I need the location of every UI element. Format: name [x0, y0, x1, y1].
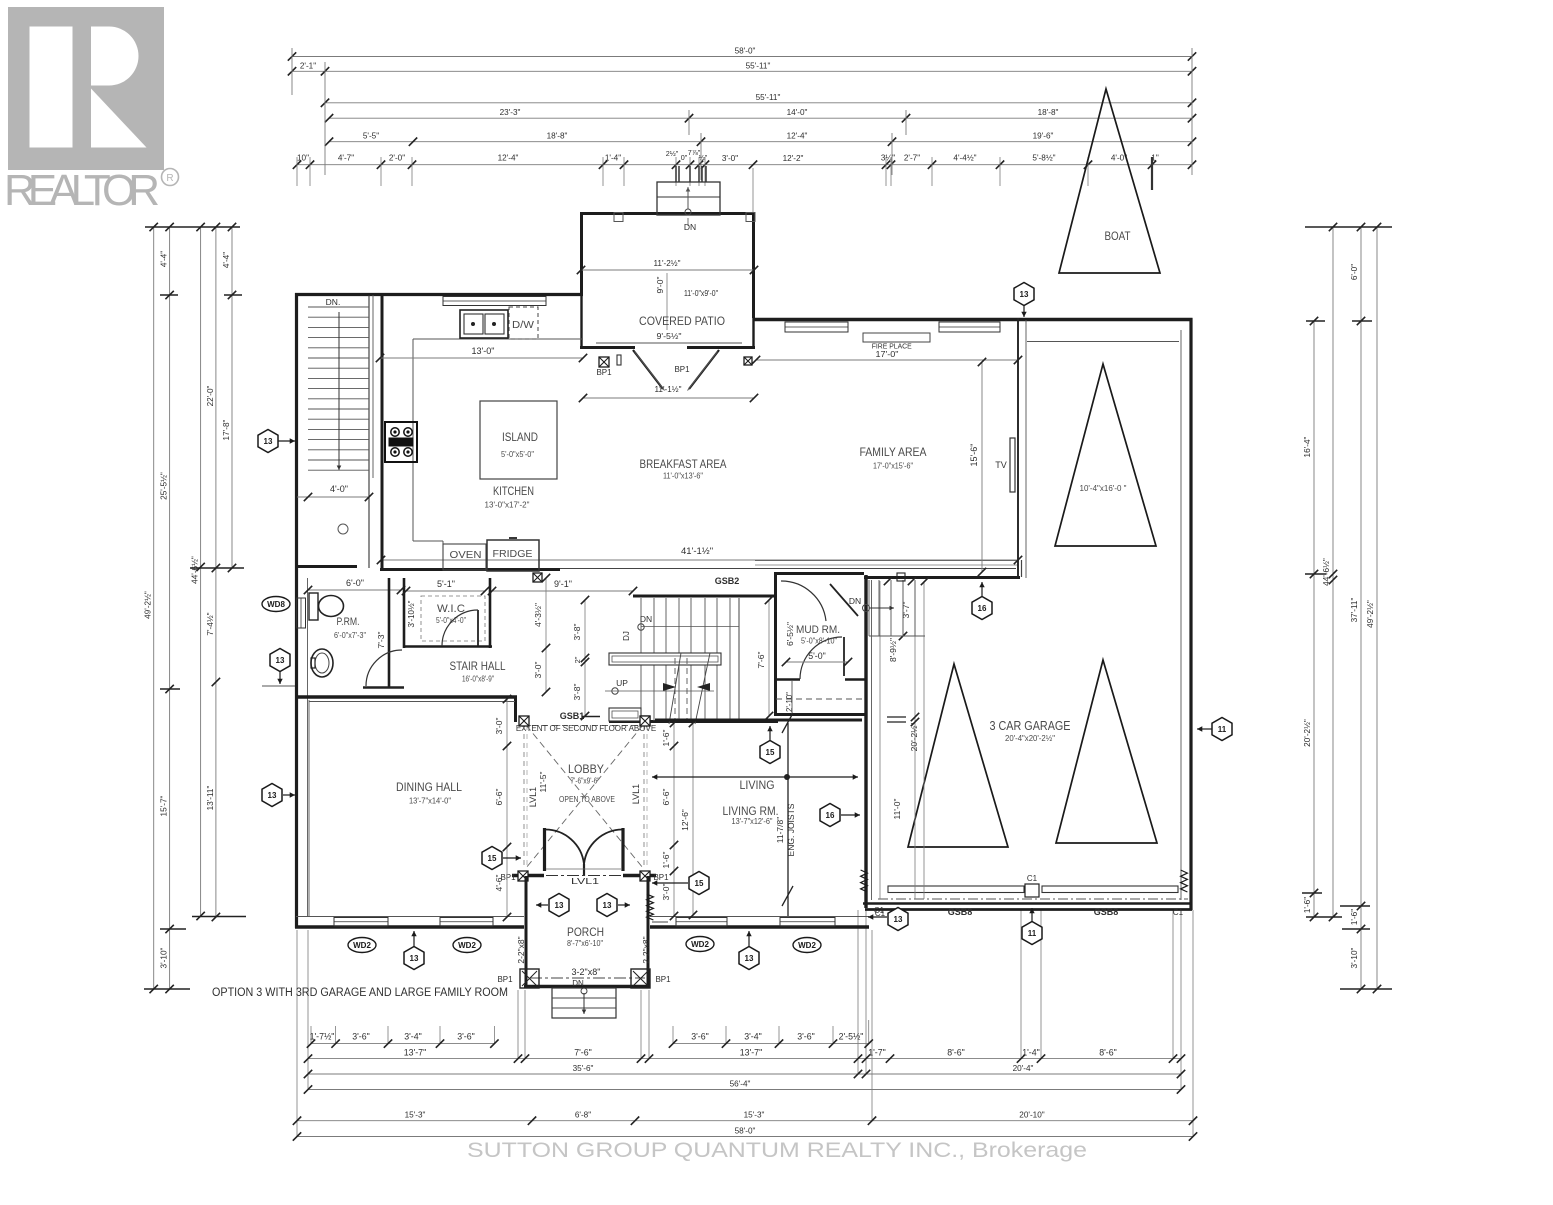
svg-text:2'-10": 2'-10" [785, 692, 794, 712]
svg-text:STAIR HALL: STAIR HALL [450, 659, 506, 673]
svg-text:ENG. JOISTS: ENG. JOISTS [786, 803, 796, 856]
dishwasher dashed [509, 307, 538, 339]
garage tree left [908, 664, 1008, 847]
living interior dims [673, 723, 675, 916]
svg-text:25'-5½": 25'-5½" [160, 472, 169, 500]
svg-text:DN: DN [684, 222, 696, 232]
svg-text:UP: UP [616, 678, 628, 688]
svg-text:12'-6": 12'-6" [680, 809, 690, 831]
svg-text:8'-6": 8'-6" [1099, 1047, 1117, 1057]
dim top row6 [293, 154, 1196, 169]
mud room walls [774, 572, 777, 716]
svg-text:5'-5": 5'-5" [363, 132, 379, 141]
svg-text:44'-6½": 44'-6½" [191, 556, 200, 584]
svg-text:5'-0"x4'-0": 5'-0"x4'-0" [436, 616, 466, 625]
dim bot row1 left [307, 1032, 499, 1048]
svg-text:3-2"x8": 3-2"x8" [572, 967, 601, 977]
oven fridge [443, 544, 486, 570]
mud closet [776, 698, 866, 700]
dim right 6-0/37-11/1-6/3-10 [1350, 223, 1365, 993]
svg-text:10": 10" [297, 154, 309, 163]
svg-text:5'-8½": 5'-8½" [1032, 154, 1055, 163]
left dim end bars [144, 227, 246, 989]
WIC walls [403, 578, 406, 648]
svg-text:GSB8: GSB8 [948, 907, 973, 917]
svg-text:16'-4": 16'-4" [1303, 436, 1312, 457]
mud dim 5-0 [786, 661, 848, 663]
svg-text:15: 15 [488, 854, 497, 863]
svg-text:1'-7½": 1'-7½" [310, 1032, 335, 1042]
stair hall interior dims [584, 600, 586, 716]
window left wall [297, 598, 306, 628]
svg-text:8'-9½": 8'-9½" [888, 638, 898, 662]
dim right 16-4/20-2/1-6 [1303, 317, 1318, 921]
island [480, 401, 557, 479]
svg-text:13'-7"x14'-0": 13'-7"x14'-0" [409, 796, 451, 806]
garage bottom wall [863, 902, 1192, 905]
extent dashed line [532, 725, 640, 727]
svg-text:13: 13 [894, 915, 903, 924]
svg-text:3'-8": 3'-8" [572, 624, 582, 641]
svg-text:2½": 2½" [666, 149, 679, 158]
svg-text:6'-0"x7'-3": 6'-0"x7'-3" [334, 631, 366, 640]
svg-text:15'-7": 15'-7" [160, 795, 169, 816]
svg-text:3'-10½": 3'-10½" [407, 600, 416, 627]
svg-text:1'-4": 1'-4" [605, 154, 621, 163]
svg-text:C1: C1 [1173, 908, 1184, 917]
svg-text:2-2"x8": 2-2"x8" [641, 936, 651, 963]
svg-text:3'-6": 3'-6" [797, 1032, 815, 1042]
svg-text:6'-0": 6'-0" [346, 578, 364, 588]
svg-text:EXTENT OF SECOND FLOOR ABOVE: EXTENT OF SECOND FLOOR ABOVE [516, 724, 656, 733]
svg-text:13'-0": 13'-0" [472, 346, 495, 356]
main stair bottom wall [609, 720, 778, 723]
svg-text:2'-7": 2'-7" [904, 154, 920, 163]
svg-text:13'-7": 13'-7" [404, 1047, 426, 1057]
svg-text:14'-0": 14'-0" [787, 108, 808, 117]
kitchen bottom wall [296, 565, 357, 568]
dim 4-3 / 3-0 right of WIC [545, 578, 547, 692]
svg-text:6'-0": 6'-0" [1350, 264, 1359, 280]
svg-text:9'-0": 9'-0" [655, 277, 665, 294]
svg-text:DINING HALL: DINING HALL [396, 780, 462, 794]
svg-text:15'-6": 15'-6" [969, 444, 979, 467]
svg-text:12'-2": 12'-2" [783, 154, 804, 163]
right dim end bars [1302, 227, 1392, 989]
svg-text:P.RM.: P.RM. [337, 616, 360, 628]
svg-text:MUD RM.: MUD RM. [796, 624, 840, 636]
garage right wall [1189, 318, 1192, 910]
porch hexagons 13 [536, 904, 548, 906]
boat triangle [1059, 89, 1160, 273]
svg-text:BP1: BP1 [653, 873, 669, 882]
svg-text:55'-11": 55'-11" [746, 61, 771, 70]
hexagon 13 garage bottom left [868, 916, 887, 918]
svg-text:37'-11": 37'-11" [1350, 598, 1359, 623]
svg-text:DN.: DN. [326, 297, 341, 307]
cooktop [385, 422, 417, 462]
dim bot row5 [293, 1111, 1197, 1125]
hexagon 15 living top [769, 726, 771, 740]
svg-text:WD8: WD8 [267, 600, 285, 609]
svg-text:10'-4"x16'-0 ": 10'-4"x16'-0 " [1080, 483, 1127, 493]
svg-text:1'-6": 1'-6" [1303, 897, 1312, 913]
svg-text:LIVING: LIVING [740, 778, 775, 792]
svg-text:2'-1": 2'-1" [300, 61, 316, 70]
svg-text:4'-6": 4'-6" [494, 875, 504, 892]
living span arrow [652, 776, 787, 778]
eng joists line [787, 723, 789, 916]
porch dashdot mid [530, 977, 645, 979]
dim left 44ft6 [191, 223, 205, 920]
svg-text:DJ: DJ [622, 631, 631, 641]
dim bot row6 [293, 1127, 1197, 1141]
hexagon 13 left dining [283, 794, 295, 796]
patio bottom wall [580, 346, 635, 349]
svg-text:ISLAND: ISLAND [502, 432, 538, 444]
svg-text:1'-6": 1'-6" [1350, 909, 1359, 925]
front double doors [543, 828, 546, 871]
svg-text:16'-0"x8'-9": 16'-0"x8'-9" [462, 674, 494, 684]
svg-text:18'-8": 18'-8" [1038, 108, 1059, 117]
svg-text:3'-6": 3'-6" [457, 1032, 475, 1042]
garage upper tree [1055, 364, 1156, 546]
svg-text:KITCHEN: KITCHEN [493, 484, 534, 498]
patio lower dim 11-1 [583, 397, 754, 399]
svg-text:1'-7": 1'-7" [868, 1047, 886, 1057]
svg-text:19'-6": 19'-6" [1033, 132, 1054, 141]
svg-text:17'-0": 17'-0" [876, 350, 899, 359]
svg-text:3'-0": 3'-0" [533, 662, 543, 679]
watermark sutton [465, 1138, 1090, 1161]
svg-text:3¼": 3¼" [881, 154, 895, 163]
svg-text:BP1: BP1 [655, 975, 671, 984]
svg-text:3'-4": 3'-4" [744, 1032, 762, 1042]
family area top wall [753, 318, 1033, 321]
family right wall [1017, 318, 1019, 577]
svg-text:SUTTON GROUP QUANTUM REALTY IN: SUTTON GROUP QUANTUM REALTY INC., Broker… [467, 1139, 1087, 1162]
svg-text:13: 13 [264, 437, 273, 446]
dim bot row4 [304, 1080, 1185, 1094]
svg-text:20'-10": 20'-10" [1019, 1111, 1045, 1120]
hexagon 16 living [841, 814, 860, 816]
svg-text:4'-0": 4'-0" [330, 484, 348, 494]
dim bot row1 right [669, 1032, 873, 1048]
dim left 49ft [144, 223, 158, 993]
bottom wall right of porch [650, 925, 869, 928]
outer wall: left [295, 293, 298, 928]
stair lower rail [609, 708, 641, 721]
svg-text:3 CAR GARAGE: 3 CAR GARAGE [990, 719, 1071, 733]
dim 41-1 [381, 559, 1018, 561]
dining interior dims left [506, 699, 508, 917]
svg-text:6'-5½": 6'-5½" [785, 622, 795, 646]
svg-text:20'-4": 20'-4" [1013, 1064, 1034, 1073]
BP1 markers lobby [518, 871, 528, 881]
svg-text:56'-4": 56'-4" [730, 1080, 751, 1089]
svg-text:7'-6"x9'-6": 7'-6"x9'-6" [571, 777, 600, 786]
svg-text:41'-1½": 41'-1½" [681, 546, 713, 557]
svg-text:BP1: BP1 [497, 975, 513, 984]
WD8 oval [262, 597, 290, 612]
svg-text:12'-4": 12'-4" [498, 154, 519, 163]
svg-text:5'-1": 5'-1" [437, 579, 455, 589]
svg-text:58'-0": 58'-0" [735, 47, 756, 56]
svg-text:DN: DN [849, 596, 861, 606]
svg-text:OVEN: OVEN [450, 550, 482, 561]
hexagon 15 living left [652, 882, 688, 884]
patio dim 11-2 [581, 269, 754, 271]
svg-text:GSB2: GSB2 [715, 576, 740, 586]
svg-text:3'-7": 3'-7" [901, 602, 911, 619]
svg-text:PORCH: PORCH [567, 925, 604, 939]
svg-text:20'-2½": 20'-2½" [909, 723, 919, 752]
svg-text:15'-3": 15'-3" [405, 1111, 426, 1120]
stair 4-0 dim [297, 496, 369, 498]
svg-text:BREAKFAST AREA: BREAKFAST AREA [640, 457, 727, 471]
svg-text:15: 15 [766, 748, 775, 757]
dim bot row2 [304, 1047, 1185, 1062]
svg-text:13'-0"x17'-2": 13'-0"x17'-2" [485, 500, 530, 510]
dim top row2 55ft11 [288, 61, 1196, 75]
patio entry steps [657, 182, 720, 215]
lobby X diagonals [526, 725, 643, 868]
svg-text:3'-0": 3'-0" [494, 718, 504, 735]
svg-text:BP1: BP1 [596, 368, 612, 377]
hexagon 13 left lower [279, 671, 281, 684]
porch BP1 bottom boxes [520, 969, 539, 988]
svg-text:GSB8: GSB8 [1094, 907, 1119, 917]
window kitchen top [443, 297, 546, 306]
lobby dashed boundaries [523, 725, 525, 868]
back stairs [849, 580, 925, 636]
svg-text:15: 15 [695, 879, 704, 888]
kitchen counter lines [412, 339, 414, 541]
porch side walls [525, 876, 528, 988]
GSB2 beam line [543, 568, 1016, 570]
dim 13-0 kitchen [380, 357, 583, 359]
stair UP/DN labels [605, 690, 714, 692]
svg-text:9'-1": 9'-1" [554, 579, 572, 589]
dim 9-1 [492, 590, 633, 592]
patio bay doors [633, 350, 663, 389]
svg-text:13'-11": 13'-11" [206, 786, 215, 811]
bottom wall left of porch [295, 925, 524, 928]
dim right 49ft [1366, 223, 1381, 993]
toilet [309, 593, 318, 620]
svg-text:2-2"x8": 2-2"x8" [516, 936, 526, 963]
svg-text:49'-2½": 49'-2½" [144, 591, 153, 619]
svg-text:11-7/8": 11-7/8" [775, 817, 785, 844]
svg-text:58'-0": 58'-0" [735, 1127, 756, 1136]
svg-text:W.I.C: W.I.C [437, 603, 465, 615]
svg-text:2": 2" [573, 656, 582, 663]
svg-text:11: 11 [1028, 929, 1037, 938]
REALTOR watermark logo [4, 7, 179, 215]
bottom hexagons 13 [413, 931, 415, 947]
dim left 4-4/17-8 [222, 223, 236, 572]
dim bot row3 [304, 1064, 1185, 1078]
svg-text:FRIDGE: FRIDGE [493, 549, 533, 560]
dim top row4 [325, 108, 1196, 122]
staircase upper-left [308, 295, 373, 568]
svg-text:LOBBY: LOBBY [568, 762, 604, 776]
svg-text:6'-6": 6'-6" [661, 789, 671, 806]
svg-text:13: 13 [268, 791, 277, 800]
svg-text:55'-11": 55'-11" [756, 93, 781, 102]
windows living bottom [676, 918, 727, 927]
svg-text:7'-6": 7'-6" [574, 1047, 592, 1057]
svg-text:11: 11 [1218, 725, 1227, 734]
garage top wall [1033, 318, 1193, 321]
stair hall bottom wall [296, 695, 517, 698]
svg-text:3'-0": 3'-0" [661, 884, 671, 901]
dim top row3 55ft11 [321, 93, 1196, 107]
WIC dashed shelves [421, 596, 485, 641]
svg-text:8'-6": 8'-6" [947, 1047, 965, 1057]
svg-text:7'-3": 7'-3" [376, 632, 386, 649]
svg-text:13: 13 [603, 901, 612, 910]
svg-text:11'-0"x9'-0": 11'-0"x9'-0" [684, 288, 718, 298]
svg-text:WD2: WD2 [353, 941, 371, 950]
fire place [863, 333, 930, 342]
svg-text:3'-0": 3'-0" [722, 154, 738, 163]
svg-text:BOAT: BOAT [1105, 231, 1131, 243]
mud room door arcs [781, 581, 826, 621]
svg-text:3'-6": 3'-6" [691, 1032, 709, 1042]
stair break lines [669, 653, 681, 724]
garage doors GSB8 [888, 886, 1024, 893]
svg-text:WD2: WD2 [458, 941, 476, 950]
svg-text:BP1: BP1 [674, 365, 690, 374]
dim top row5 [325, 132, 1196, 146]
living room top wall [655, 719, 862, 722]
dim top row1 58ft [288, 47, 1196, 61]
stair hall / kitchen lower wall [543, 568, 560, 571]
porch steps [552, 988, 616, 1018]
svg-text:½": ½" [699, 153, 708, 162]
svg-text:13: 13 [745, 954, 754, 963]
svg-text:3'-8": 3'-8" [572, 684, 582, 701]
hexagon 13 top patio [1023, 305, 1025, 317]
svg-text:11'-1½": 11'-1½" [655, 384, 682, 394]
dim 15-6 family [981, 362, 983, 572]
svg-text:3'-4": 3'-4" [404, 1032, 422, 1042]
patio corner posts [614, 213, 623, 222]
svg-text:6'-6": 6'-6" [494, 789, 504, 806]
PRM door [366, 650, 402, 686]
hexagon 15 dining [503, 857, 521, 859]
dim left 22/7-4/13-11 [206, 223, 220, 921]
dim 6-0 [308, 589, 401, 591]
svg-text:16: 16 [978, 604, 987, 613]
svg-text:WD2: WD2 [691, 940, 709, 949]
BP1 labels patio [599, 357, 609, 367]
hexagon 13 left stairs [278, 440, 295, 442]
svg-text:9'-5½": 9'-5½" [657, 331, 682, 341]
svg-text:49'-2½": 49'-2½" [1366, 600, 1375, 628]
svg-text:11'-0"x13'-6": 11'-0"x13'-6" [663, 471, 703, 481]
svg-text:11'-2½": 11'-2½" [654, 258, 681, 268]
svg-text:FAMILY AREA: FAMILY AREA [860, 445, 927, 459]
sink unit [460, 310, 508, 338]
svg-text:13: 13 [1020, 290, 1029, 299]
svg-text:15'-3": 15'-3" [744, 1111, 765, 1120]
svg-text:13: 13 [410, 954, 419, 963]
svg-text:DN: DN [640, 614, 652, 624]
svg-text:11'-0": 11'-0" [892, 798, 902, 819]
stair mid rail [609, 653, 721, 665]
svg-text:COVERED PATIO: COVERED PATIO [639, 314, 725, 328]
svg-text:6'-8": 6'-8" [575, 1111, 591, 1120]
svg-text:LVL1: LVL1 [571, 876, 599, 886]
svg-text:5'-0"x5'-0": 5'-0"x5'-0" [501, 450, 534, 459]
svg-text:5'-0": 5'-0" [808, 651, 826, 661]
svg-text:20'-2½": 20'-2½" [1303, 719, 1312, 747]
svg-text:17'-8": 17'-8" [222, 419, 231, 440]
svg-text:4'-7": 4'-7" [338, 154, 354, 163]
svg-text:3'-10": 3'-10" [160, 947, 169, 968]
svg-text:17'-0"x15'-6": 17'-0"x15'-6" [873, 461, 913, 471]
covered patio walls [582, 214, 754, 319]
svg-text:LVL1: LVL1 [528, 787, 538, 807]
svg-text:2'-0": 2'-0" [389, 154, 405, 163]
lobby bottom wall [512, 874, 544, 877]
porch coil [647, 894, 654, 920]
svg-text:20'-4"x20'-2½": 20'-4"x20'-2½" [1005, 733, 1055, 743]
svg-text:13: 13 [555, 901, 564, 910]
garage tree right [1056, 660, 1157, 843]
svg-text:2'-5½": 2'-5½" [839, 1032, 864, 1042]
svg-text:35'-6": 35'-6" [573, 1064, 594, 1073]
svg-text:13'-7"x12'-6": 13'-7"x12'-6" [732, 816, 773, 826]
svg-text:0": 0" [681, 153, 688, 162]
svg-text:C1: C1 [874, 906, 885, 915]
outer wall: kitchen top [295, 293, 583, 296]
svg-text:WD2: WD2 [798, 941, 816, 950]
svg-text:3'-10": 3'-10" [1350, 947, 1359, 968]
hexagon 16 breakfast [981, 582, 983, 596]
svg-text:1'-6": 1'-6" [661, 852, 671, 869]
hexagon 11 garage right [1197, 728, 1213, 730]
svg-text:TV: TV [995, 460, 1007, 470]
main stairs treads [641, 598, 739, 721]
svg-text:R: R [166, 173, 173, 184]
svg-text:C1: C1 [1027, 874, 1038, 883]
sink [311, 649, 333, 677]
svg-text:OPEN TO ABOVE: OPEN TO ABOVE [559, 794, 615, 804]
windows dining bottom [334, 918, 388, 927]
svg-text:4'-3½": 4'-3½" [533, 603, 543, 627]
svg-text:23'-3": 23'-3" [500, 108, 521, 117]
kitchen interior wall [381, 296, 384, 568]
svg-text:4'-4": 4'-4" [160, 251, 169, 267]
WIC door [477, 610, 479, 646]
svg-text:44'-6½": 44'-6½" [1322, 558, 1331, 586]
top dim guide lines [292, 48, 1192, 213]
svg-text:LVL1: LVL1 [631, 784, 641, 804]
svg-text:8'-7"x6'-10": 8'-7"x6'-10" [567, 938, 603, 948]
svg-text:OPTION 3 WITH 3RD GARAGE AND L: OPTION 3 WITH 3RD GARAGE AND LARGE FAMIL… [212, 987, 508, 999]
svg-text:22'-0": 22'-0" [206, 385, 215, 406]
svg-text:7'-4½": 7'-4½" [206, 612, 215, 635]
svg-text:16: 16 [826, 811, 835, 820]
svg-text:4'-4½": 4'-4½" [953, 154, 976, 163]
dim left 4-4/25-5/15-7/3-10 [160, 223, 174, 993]
main stair top wall [633, 595, 776, 598]
svg-text:REALTOR: REALTOR [4, 166, 162, 215]
svg-text:12'-4": 12'-4" [787, 132, 808, 141]
